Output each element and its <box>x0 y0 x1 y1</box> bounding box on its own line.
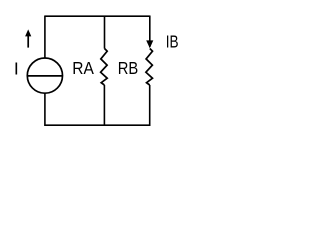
svg-text:IB: IB <box>166 32 179 52</box>
resistor RA <box>101 49 108 86</box>
wire right branch upper <box>149 16 151 48</box>
current source bar <box>27 75 62 77</box>
svg-text:RB: RB <box>118 58 139 78</box>
wire left branch lower <box>44 93 46 126</box>
wire bottom <box>45 124 150 126</box>
wire middle branch lower <box>103 85 105 126</box>
resistor RB <box>146 49 153 86</box>
current source I1 <box>27 58 62 93</box>
current direction arrow <box>25 29 31 47</box>
wire middle branch upper <box>104 16 106 49</box>
wire right branch lower <box>149 85 151 126</box>
wire top <box>45 15 150 17</box>
svg-text:I: I <box>14 58 19 78</box>
IB arrowhead <box>146 40 153 48</box>
svg-text:RA: RA <box>72 58 94 78</box>
wire left branch upper <box>44 16 46 58</box>
